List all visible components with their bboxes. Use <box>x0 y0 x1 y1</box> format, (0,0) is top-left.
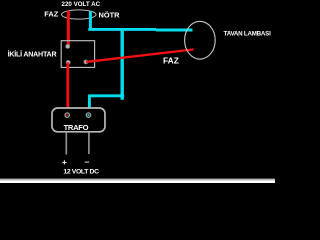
transformer input terminal (cyan, neutral) <box>86 113 90 117</box>
switch pin 2 (bottom-left output) <box>66 60 70 64</box>
wire: cyan neutral branch vertical down <box>120 28 123 100</box>
wire: DC output lead + <box>65 132 67 154</box>
wire: DC output lead - <box>88 132 90 154</box>
transformer input terminal (red, phase) <box>65 113 69 117</box>
switch U1 body (İKİLİ ANAHTAR) <box>61 41 94 68</box>
transformer T1 body (TRAFO) <box>52 108 105 132</box>
AC source ellipse (220V supply) <box>62 10 97 19</box>
wire: cyan neutral horizontal run, segment 2 to lamp <box>156 29 193 32</box>
wire: cyan neutral drop from source <box>89 11 92 29</box>
svg-text:220 VOLT AC: 220 VOLT AC <box>62 1 101 8</box>
wire: red switched phase to lamp <box>86 49 194 62</box>
svg-text:İKİLİ ANAHTAR: İKİLİ ANAHTAR <box>8 49 57 58</box>
svg-text:NÖTR: NÖTR <box>99 10 121 19</box>
svg-text:FAZ: FAZ <box>44 9 58 18</box>
wire: red from switch pin 2 down to transformer <box>66 62 69 108</box>
svg-text:12 VOLT DC: 12 VOLT DC <box>63 168 99 175</box>
svg-text:–: – <box>85 157 90 167</box>
svg-text:+: + <box>62 157 67 167</box>
svg-text:TAVAN LAMBASI: TAVAN LAMBASI <box>224 31 271 38</box>
wire: cyan neutral horizontal run, segment 1 <box>88 28 156 31</box>
wire: red phase drop from source to switch pin 1 <box>67 11 70 47</box>
lamp L1 (TAVAN LAMBASI) <box>185 21 216 59</box>
svg-text:FAZ: FAZ <box>163 55 179 65</box>
switch pin 1 (top input) <box>66 44 70 48</box>
wire: cyan neutral into transformer terminal <box>88 96 91 108</box>
switch pin 3 (bottom-right output) <box>84 60 88 64</box>
svg-text:TRAFO: TRAFO <box>64 123 89 132</box>
wire: cyan neutral branch horizontal <box>88 94 124 97</box>
